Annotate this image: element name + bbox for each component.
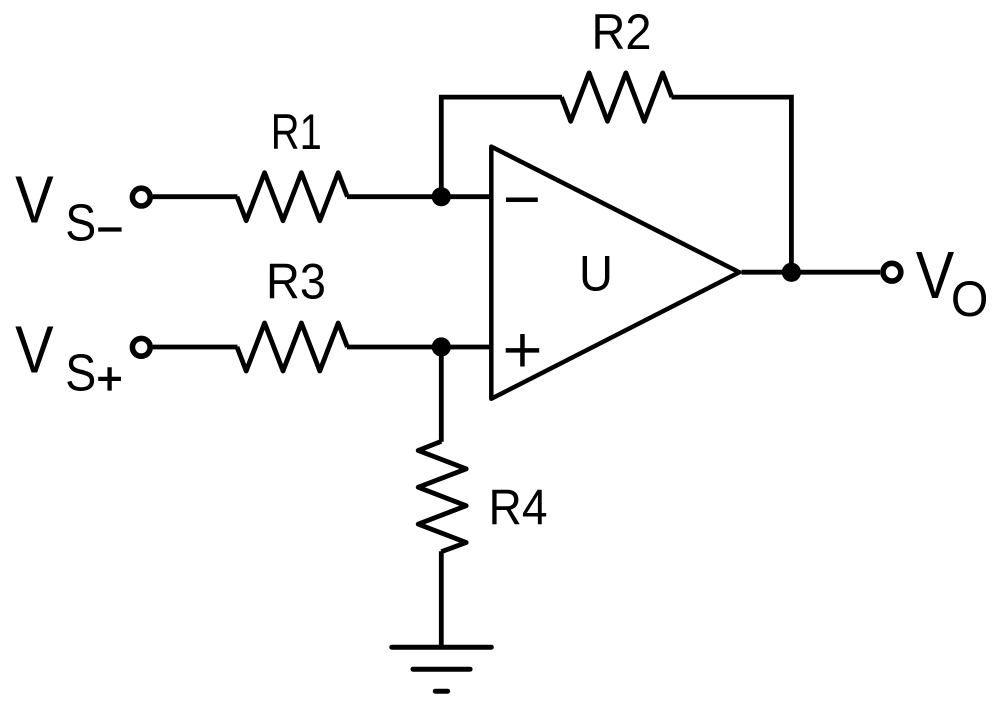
svg-text:R4: R4 (489, 479, 548, 535)
svg-text:V: V (916, 238, 955, 313)
svg-text:S: S (65, 194, 96, 252)
svg-text:S: S (65, 344, 96, 402)
svg-text:R2: R2 (592, 4, 652, 60)
svg-text:O: O (951, 271, 989, 327)
svg-text:U: U (579, 246, 613, 302)
svg-text:R1: R1 (271, 104, 322, 160)
svg-text:V: V (15, 313, 54, 388)
svg-text:V: V (15, 163, 54, 238)
svg-text:R3: R3 (266, 254, 326, 310)
